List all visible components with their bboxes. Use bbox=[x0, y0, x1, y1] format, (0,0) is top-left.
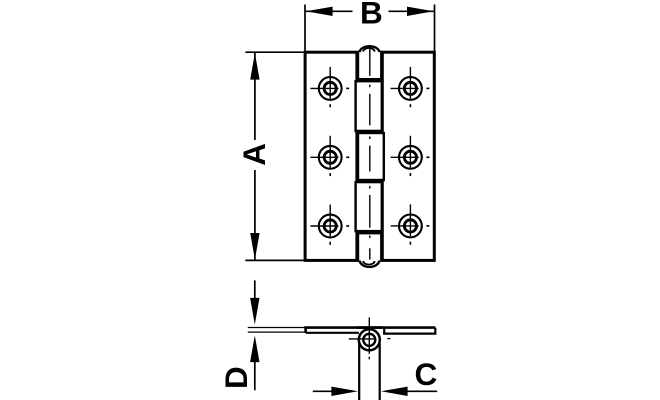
label A bbox=[236, 143, 272, 166]
hinge leaf outline (front view) bbox=[305, 50, 434, 263]
knuckle k4 bbox=[356, 182, 382, 231]
label D bbox=[218, 366, 254, 389]
dimension C extension lines (barrel tangents) bbox=[359, 343, 380, 400]
bottom view: top surface line over barrel bbox=[357, 326, 382, 329]
dimension A extension ticks bbox=[245, 52, 304, 260]
screw hole top-left bbox=[310, 67, 349, 107]
dimension C left arrow bbox=[313, 387, 358, 396]
pin centre line bbox=[369, 46, 371, 260]
knuckle k2 bbox=[356, 81, 382, 131]
barrel bottom dome bbox=[359, 260, 379, 267]
knuckle k1 bbox=[358, 52, 381, 79]
bottom view: left leaf bbox=[306, 328, 436, 333]
bottom view: right leaf bbox=[384, 328, 435, 334]
screw hole mid-right bbox=[391, 136, 430, 176]
dimension B extension lines bbox=[305, 5, 435, 53]
leaf inner end lines at barrel bbox=[356, 52, 383, 260]
svg-text:B: B bbox=[360, 0, 383, 30]
svg-text:D: D bbox=[218, 366, 254, 389]
screw hole bottom-right bbox=[391, 204, 430, 244]
label C bbox=[415, 356, 438, 392]
dimension D down arrow bbox=[250, 280, 259, 324]
bottom view: thin extension of leaf bbox=[248, 328, 306, 333]
knuckle k5 bbox=[358, 233, 381, 260]
dimension D up arrow bbox=[250, 336, 259, 391]
svg-text:C: C bbox=[415, 356, 438, 392]
label B bbox=[360, 0, 383, 30]
screw hole top-right bbox=[391, 67, 430, 107]
svg-text:A: A bbox=[236, 143, 272, 166]
dimension B line with arrows bbox=[306, 7, 434, 16]
dimension A line with arrows bbox=[250, 53, 259, 260]
knuckle k3 bbox=[358, 133, 384, 180]
screw hole mid-left bbox=[310, 136, 349, 176]
bottom view: barrel circle bbox=[359, 329, 380, 350]
bottom view: barrel centre marks bbox=[349, 317, 391, 359]
screw hole bottom-left bbox=[310, 205, 349, 245]
dimension C right arrow bbox=[381, 387, 437, 396]
barrel top dome bbox=[359, 46, 379, 52]
